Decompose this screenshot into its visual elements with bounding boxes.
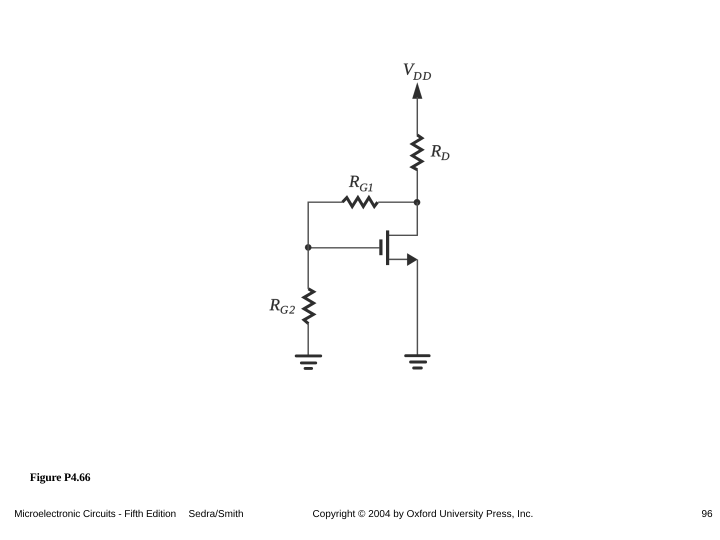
footer author xyxy=(189,510,243,517)
wire left node to RG1 xyxy=(308,201,343,203)
wire RG1 to drain node xyxy=(378,201,417,203)
wire RD bottom to drain node xyxy=(416,170,418,203)
transistor Q1 source arrow xyxy=(407,253,417,265)
ground right xyxy=(406,356,429,368)
transistor Q1 channel bar xyxy=(386,230,389,265)
resistor RD xyxy=(412,135,422,170)
transistor Q1 gate bar xyxy=(379,239,382,255)
footer copyright xyxy=(313,510,532,519)
ground left xyxy=(296,356,321,369)
caption Figure P4.66 xyxy=(30,473,90,484)
wire node down to drain corner xyxy=(416,202,418,235)
VDD supply arrow xyxy=(412,83,422,99)
wire left vertical RG1 node to RG2 xyxy=(307,202,309,289)
label RG1 xyxy=(349,176,372,192)
label RG2 xyxy=(270,299,295,314)
wire RG2 to ground xyxy=(307,323,309,356)
node VDD label xyxy=(404,64,431,80)
footer page number xyxy=(702,510,712,517)
wire gate horizontal xyxy=(308,247,379,249)
wire arrow to RD top xyxy=(416,97,418,136)
footer left xyxy=(15,510,175,517)
node gate junction dot xyxy=(305,244,311,250)
wire source horizontal xyxy=(389,258,409,260)
wire drain horizontal xyxy=(389,234,418,236)
resistor RG2 xyxy=(304,289,314,324)
node drain junction dot xyxy=(414,199,420,205)
wire source down to ground xyxy=(416,260,418,356)
label RD xyxy=(431,145,450,160)
resistor RG1 xyxy=(343,198,378,207)
